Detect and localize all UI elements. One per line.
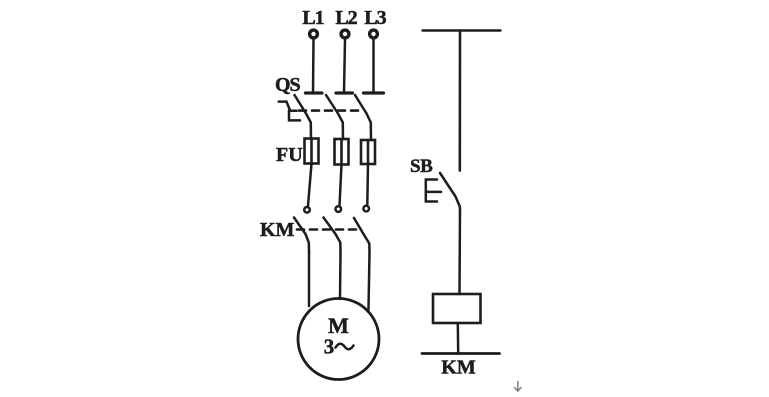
fuse FU pole 3 [361, 140, 375, 164]
pushbutton SB actuator [426, 180, 441, 202]
contactor KM contact 1 blade [294, 218, 309, 253]
wire FU3 to KM contact 3 [366, 164, 369, 205]
switch QS pole 2 blade [326, 95, 343, 139]
svg-text:L3: L3 [364, 7, 386, 29]
contactor KM contact 1 fixed terminal [304, 207, 310, 213]
label 3~ [324, 335, 354, 359]
svg-text:L2: L2 [335, 7, 357, 29]
fuse FU pole 2 [335, 139, 349, 165]
switch QS pole 3 fixed contact bar [364, 91, 384, 94]
terminal L3 [370, 30, 378, 38]
svg-text:L1: L1 [302, 7, 323, 29]
svg-text:QS: QS [275, 74, 301, 96]
control circuit bottom rail [422, 352, 500, 355]
svg-text:FU: FU [276, 144, 303, 166]
terminal L2 [341, 30, 349, 38]
switch QS pole 1 blade [295, 95, 312, 139]
fuse FU pole 1 [305, 139, 319, 164]
switch QS pole 3 blade [355, 95, 371, 140]
wire KM2 to motor [339, 252, 342, 299]
svg-text:KM: KM [260, 219, 295, 241]
svg-text:3: 3 [324, 335, 335, 359]
switch QS pole 2 fixed contact bar [336, 91, 353, 94]
terminal L1 [310, 30, 318, 38]
wire FU1 to KM contact 1 [308, 164, 312, 206]
wire coil KM to bottom rail [457, 323, 460, 354]
svg-text:KM: KM [441, 357, 476, 379]
wire SB to coil KM [458, 210, 461, 294]
motor M circle [298, 299, 379, 380]
switch QS handle [279, 102, 300, 121]
wire L2 to QS [344, 40, 345, 93]
wire KM3 to motor [369, 252, 370, 310]
contactor KM contact 2 fixed terminal [336, 206, 342, 212]
wire FU2 to KM contact 2 [340, 165, 342, 206]
wire L1 to QS [312, 40, 315, 93]
control circuit top rail [423, 29, 501, 31]
cursor arrow (gray down arrow) [515, 382, 522, 392]
contactor KM linkage (dashed) [297, 228, 362, 231]
contactor KM contact 2 blade [324, 218, 341, 253]
wire KM1 to motor [308, 252, 311, 306]
switch QS linkage (dashed) [299, 109, 364, 112]
contactor KM contact 3 fixed terminal [363, 206, 369, 212]
switch QS pole 1 fixed contact bar [306, 91, 323, 94]
coil KM [433, 294, 481, 323]
pushbutton SB blade [440, 173, 460, 210]
wire top rail to SB [458, 31, 461, 171]
contactor KM contact 3 blade [354, 218, 370, 252]
wire L3 to QS [372, 40, 375, 93]
svg-text:SB: SB [410, 156, 433, 177]
